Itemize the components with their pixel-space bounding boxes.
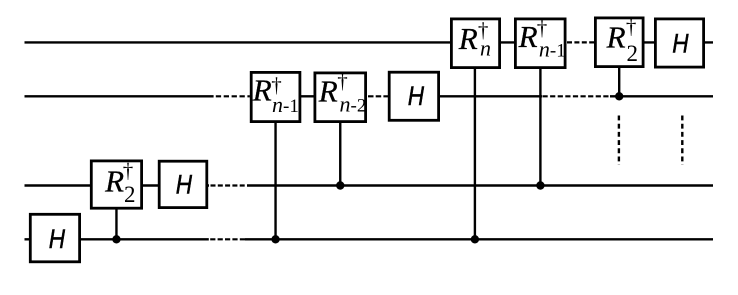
gate H qubit2 [389, 72, 438, 120]
svg-text:R: R [104, 164, 124, 199]
wire qubit4 dashed segment [210, 238, 245, 240]
gate H qubit4 [30, 214, 79, 261]
svg-text:R: R [252, 73, 272, 108]
wire qubit3 dashed segment [211, 184, 248, 186]
svg-text:n-1: n-1 [539, 36, 566, 61]
svg-text:†: † [337, 69, 348, 93]
control line from Rn-1-dagger qubit1 to qubit3 [539, 68, 541, 186]
gate Rn-1-dagger qubit2 [251, 72, 300, 121]
wire qubit2 dashed segment 1 [216, 95, 250, 97]
svg-text:n-1: n-1 [272, 92, 299, 117]
svg-text:†: † [123, 159, 134, 183]
wire qubit4 solid segment right [245, 238, 713, 240]
svg-text:H: H [408, 81, 425, 111]
gate Rn-2-dagger qubit2 [315, 69, 366, 122]
svg-text:H: H [672, 29, 689, 59]
svg-text:†: † [626, 15, 637, 39]
ellipsis dashed vertical right [681, 116, 683, 166]
control dot qubit2 under R2-dagger qubit1 [615, 92, 623, 100]
control dot qubit3 under Rn-2-dagger qubit2 [336, 181, 344, 189]
gate R2-dagger qubit3 [91, 159, 141, 209]
control dot qubit4 under R2-dagger qubit3 [112, 235, 120, 243]
wire qubit4 solid segment left [25, 238, 209, 240]
wire qubit2 solid segment middle1 [250, 95, 367, 97]
control dot qubit4 under Rn-1-dagger qubit2 [271, 235, 279, 243]
gate H qubit3 [159, 161, 207, 207]
wire qubit2 dashed segment 3 [543, 95, 612, 97]
wire qubit2 dashed segment 2 [368, 95, 388, 97]
wire qubit1 solid segment right [594, 41, 713, 43]
svg-text:2: 2 [627, 41, 639, 66]
wire qubit3 solid segment right [247, 184, 713, 186]
gate Rn-dagger qubit1 [451, 18, 499, 68]
gate H qubit1 [655, 19, 703, 67]
ellipsis dashed vertical left [618, 116, 620, 166]
svg-text:R: R [458, 21, 478, 56]
wire qubit3 solid segment left [25, 184, 210, 186]
control line from Rn-2-dagger qubit2 to qubit3 [339, 122, 341, 186]
svg-text:R: R [606, 20, 626, 55]
wire qubit2 solid segment right [610, 95, 713, 97]
control line from R2-dagger qubit1 to qubit2 [618, 67, 620, 96]
svg-text:H: H [176, 169, 193, 199]
wire qubit1 dashed segment [567, 41, 594, 43]
wire qubit2 solid segment middle2 [388, 95, 542, 97]
wire qubit1 solid segment left [25, 41, 567, 43]
control line from Rn-dagger qubit1 to qubit4 [474, 68, 476, 239]
control line from Rn-1-dagger qubit2 to qubit4 [274, 122, 276, 239]
svg-text:R: R [318, 74, 338, 109]
svg-text:2: 2 [124, 182, 136, 207]
control dot qubit3 under Rn-1-dagger qubit1 [536, 181, 544, 189]
wire qubit2 solid segment left [25, 95, 214, 97]
svg-text:n: n [480, 35, 491, 60]
svg-text:n-2: n-2 [340, 92, 367, 117]
svg-text:R: R [518, 19, 538, 54]
svg-text:H: H [49, 224, 66, 254]
gate Rn-1-dagger qubit1 [515, 16, 565, 68]
control dot qubit4 under Rn-dagger qubit1 [471, 235, 479, 243]
control line from R2-dagger qubit3 to qubit4 [115, 208, 117, 239]
gate R2-dagger qubit1 [595, 15, 643, 67]
